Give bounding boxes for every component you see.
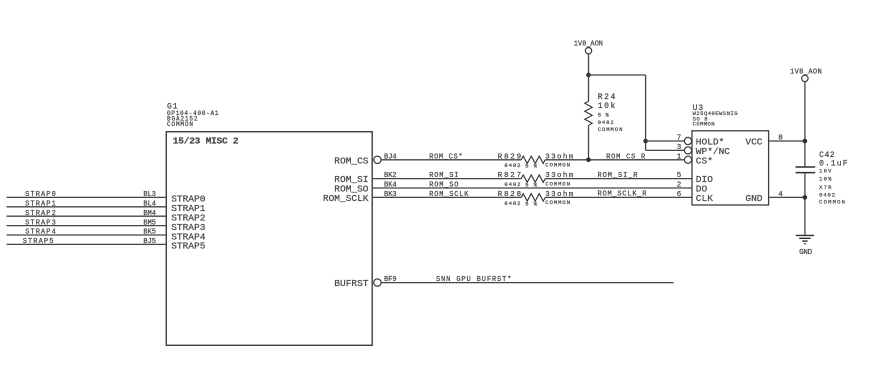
svg-text:STRAP3: STRAP3 [25,219,56,227]
resistor R24 body [585,101,592,125]
wire VCC pin8 [769,140,805,142]
svg-text:16V: 16V [819,168,832,175]
svg-text:STRAP5: STRAP5 [23,238,54,246]
svg-text:%: % [534,200,538,207]
svg-text:CS*: CS* [696,155,713,166]
svg-text:COMMON: COMMON [545,162,570,169]
wire C42 to GND [804,173,806,236]
wire net STRAP3 [7,225,167,227]
wire net STRAP5 [7,243,167,245]
svg-text:SNN GPU BUFRST*: SNN GPU BUFRST* [436,276,511,284]
U3 pin bubble 7 [684,137,691,144]
svg-text:CLK: CLK [696,193,713,204]
resistor R828 body [521,194,545,201]
svg-text:15/23 MISC 2: 15/23 MISC 2 [173,135,239,146]
wire to pin3 [646,149,685,151]
svg-text:1V8_AON: 1V8_AON [790,68,822,76]
svg-text:STRAP5: STRAP5 [171,241,205,252]
svg-text:R829: R829 [498,153,521,161]
junction GND node [803,195,808,200]
wire net STRAP4 [7,234,167,236]
svg-text:ROM_CS_R: ROM_CS_R [606,153,646,161]
power symbol 1V8_AON (right) [802,75,808,81]
svg-text:1: 1 [677,153,682,161]
svg-text:BM4: BM4 [143,210,156,218]
U3 pin bubble 1 [684,156,691,163]
svg-text:BM5: BM5 [143,219,156,227]
resistor R829 body [521,156,545,163]
svg-text:0402: 0402 [504,181,520,188]
svg-text:2: 2 [677,182,682,190]
G1 pin BF9 bubble (BUFRST) [374,279,381,286]
wire 1V8_AON stem [588,54,590,75]
junction VCC node [803,139,808,144]
svg-text:0402: 0402 [504,162,520,169]
svg-text:STRAP0: STRAP0 [25,191,56,199]
svg-text:STRAP2: STRAP2 [25,210,56,218]
svg-text:R827: R827 [498,172,521,180]
svg-text:5: 5 [677,172,682,180]
svg-text:GND: GND [799,249,812,257]
svg-text:10%: 10% [819,175,832,182]
svg-text:ROM_SCLK: ROM_SCLK [323,193,369,204]
G1 pin BJ4 bubble (ROM_CS) [374,156,381,163]
wire R24 bottom lead [588,125,590,160]
svg-text:0402: 0402 [504,200,520,207]
svg-text:COMMON: COMMON [167,121,193,128]
svg-text:1V8_AON: 1V8_AON [574,40,603,48]
wire GND pin4 [769,196,805,198]
svg-text:COMMON: COMMON [545,199,570,206]
wire HOLD/WP vertical [645,75,647,150]
svg-text:5: 5 [525,200,528,207]
svg-text:ROM_SCLK: ROM_SCLK [429,191,469,199]
flash chip U3 body [692,131,769,205]
svg-text:ROM_CS*: ROM_CS* [429,153,462,161]
svg-text:5 %: 5 % [598,111,610,118]
svg-text:5: 5 [525,163,528,170]
wire ROM_SCLK_R segment [545,196,692,198]
wire ROM_SI segment [372,178,521,180]
ground symbol [796,234,814,236]
wire to pin7 [646,140,685,142]
svg-text:GND: GND [745,193,762,204]
junction HOLD node [643,139,648,144]
svg-text:6: 6 [677,191,682,199]
wire 1V8 right stem [804,82,806,167]
svg-text:ROM_CS: ROM_CS [334,155,368,166]
svg-text:BK5: BK5 [143,229,156,237]
svg-text:COMMON: COMMON [598,126,623,133]
svg-text:7: 7 [677,135,682,143]
GPU chip U G1 body [166,132,372,346]
svg-text:ROM_SCLK_R: ROM_SCLK_R [598,191,648,199]
svg-text:X7R: X7R [819,184,832,191]
svg-text:STRAP4: STRAP4 [25,229,56,237]
wire ROM_SCLK segment [372,196,521,198]
wire ROM_CS* segment [381,159,521,161]
svg-text:ROM_SI_R: ROM_SI_R [598,172,639,180]
power symbol 1V8_AON (left) [585,48,591,54]
wire 1V8 to HOLD horiz [589,74,646,76]
svg-text:%: % [534,163,538,170]
svg-text:VCC: VCC [745,137,762,148]
svg-text:10k: 10k [598,102,616,111]
wire ROM_SI_R segment [545,178,692,180]
wire net STRAP2 [7,215,167,217]
wire ROM_SO full segment [372,187,692,189]
svg-text:COMMON: COMMON [693,120,715,127]
svg-text:8: 8 [778,135,783,143]
wire net STRAP0 [7,196,167,198]
wire SNN GPU BUFRST* segment [381,282,673,284]
junction R24/ROM_CS_R node [586,158,591,163]
svg-text:R24: R24 [598,93,616,102]
wire ROM_CS_R segment [545,159,684,161]
svg-text:4: 4 [778,191,783,199]
svg-text:STRAP1: STRAP1 [25,201,56,209]
svg-text:3: 3 [677,144,682,152]
svg-text:ROM_SI: ROM_SI [429,172,458,180]
svg-text:BL4: BL4 [143,201,156,209]
capacitor C42 plates [796,166,816,168]
svg-text:ROM_SO: ROM_SO [429,182,458,190]
resistor R827 body [521,175,545,182]
U3 pin bubble 3 [684,147,691,154]
svg-text:COMMON: COMMON [819,198,845,205]
svg-text:BJ5: BJ5 [143,238,156,246]
wire net STRAP1 [7,206,167,208]
junction 1V8 node [586,73,591,78]
svg-text:BUFRST: BUFRST [334,278,368,289]
svg-text:BL3: BL3 [143,191,156,199]
svg-text:R828: R828 [498,191,521,199]
svg-text:COMMON: COMMON [545,180,570,187]
wire R24 top lead [588,75,590,101]
